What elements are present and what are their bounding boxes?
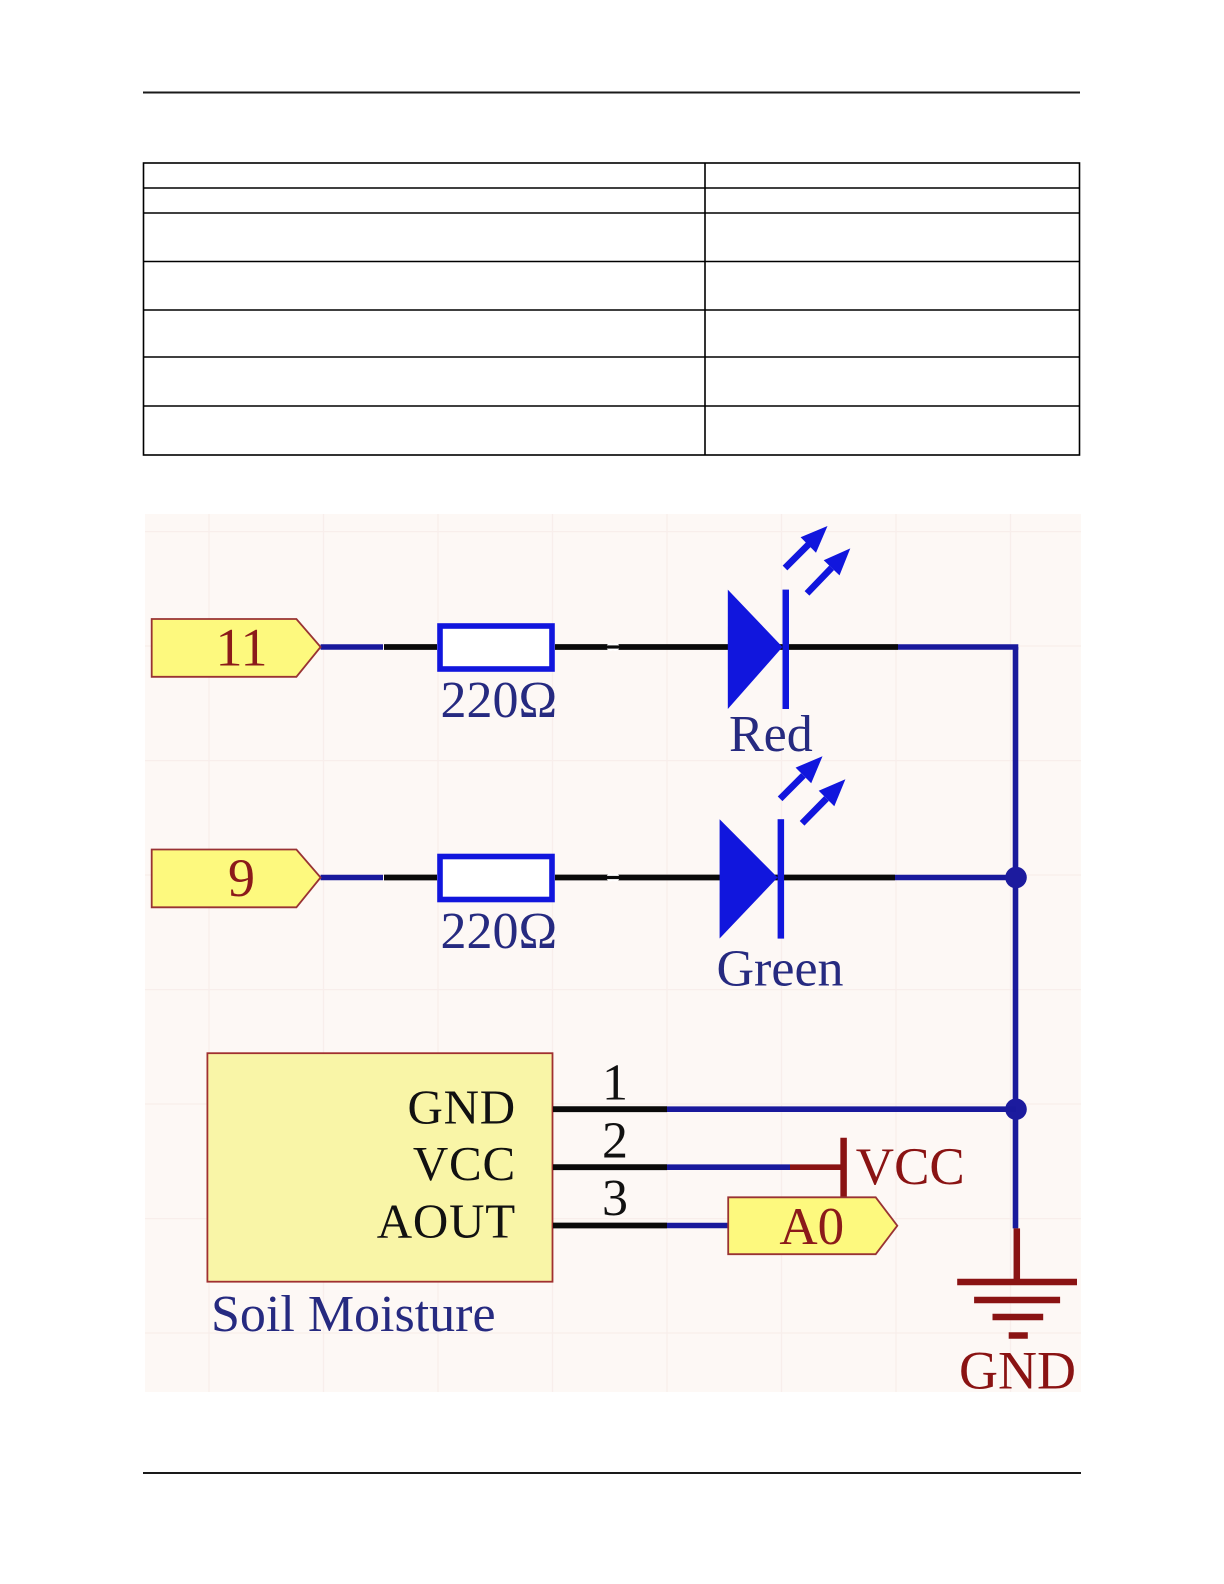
svg-text:2: 2 — [602, 1112, 628, 1169]
svg-text:11: 11 — [216, 618, 268, 678]
svg-text:GND: GND — [407, 1080, 516, 1135]
svg-text:220Ω: 220Ω — [440, 672, 557, 729]
svg-text:VCC: VCC — [413, 1136, 516, 1191]
svg-text:VCC: VCC — [856, 1138, 965, 1196]
svg-text:220Ω: 220Ω — [440, 903, 557, 960]
svg-text:1: 1 — [602, 1054, 628, 1111]
svg-text:9: 9 — [228, 848, 255, 908]
svg-text:Soil Moisture: Soil Moisture — [211, 1286, 496, 1343]
svg-text:3: 3 — [602, 1170, 628, 1227]
svg-text:A0: A0 — [779, 1198, 844, 1256]
svg-text:Red: Red — [729, 706, 813, 763]
svg-text:AOUT: AOUT — [377, 1194, 516, 1249]
svg-text:GND: GND — [959, 1341, 1076, 1401]
svg-text:Green: Green — [717, 940, 844, 997]
